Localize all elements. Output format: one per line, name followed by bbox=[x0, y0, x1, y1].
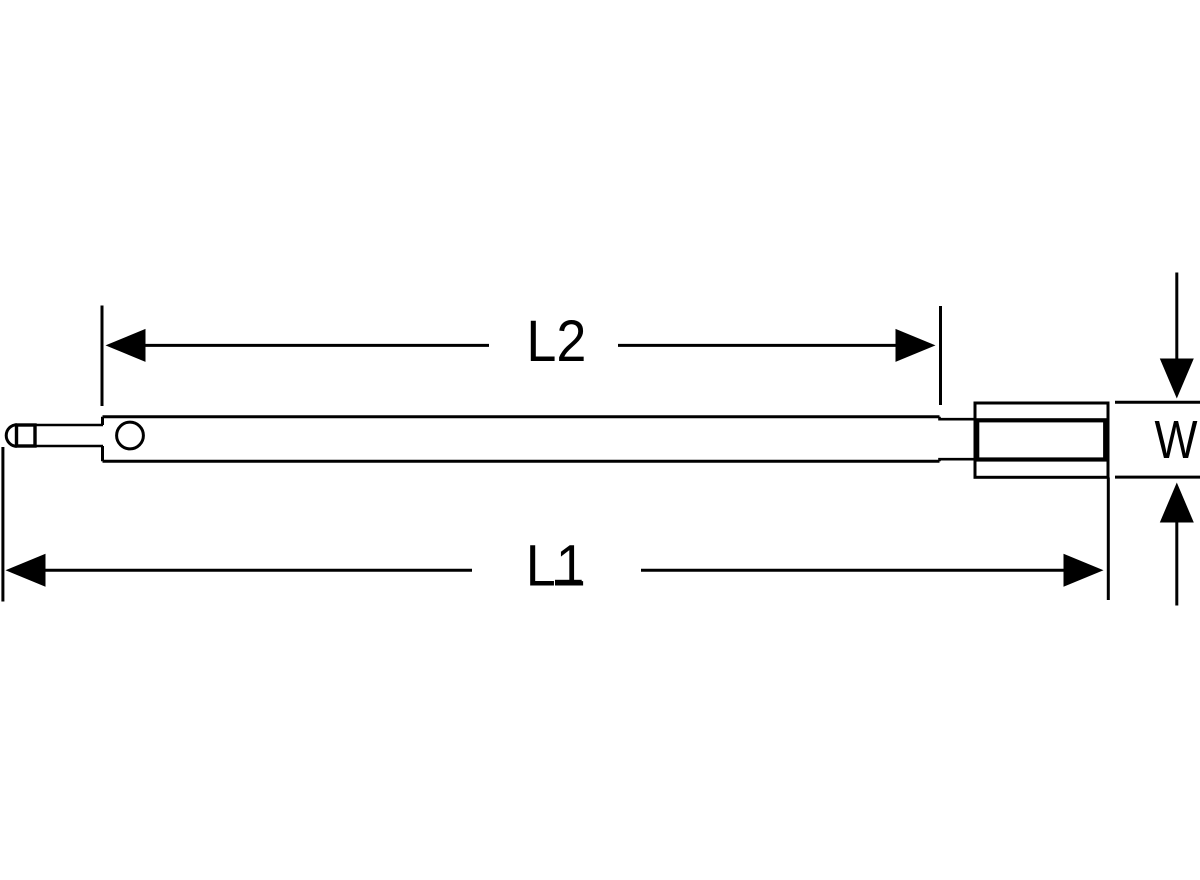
svg-text:L2: L2 bbox=[526, 309, 586, 374]
svg-text:W: W bbox=[1155, 410, 1198, 470]
svg-text:L1: L1 bbox=[526, 534, 586, 599]
